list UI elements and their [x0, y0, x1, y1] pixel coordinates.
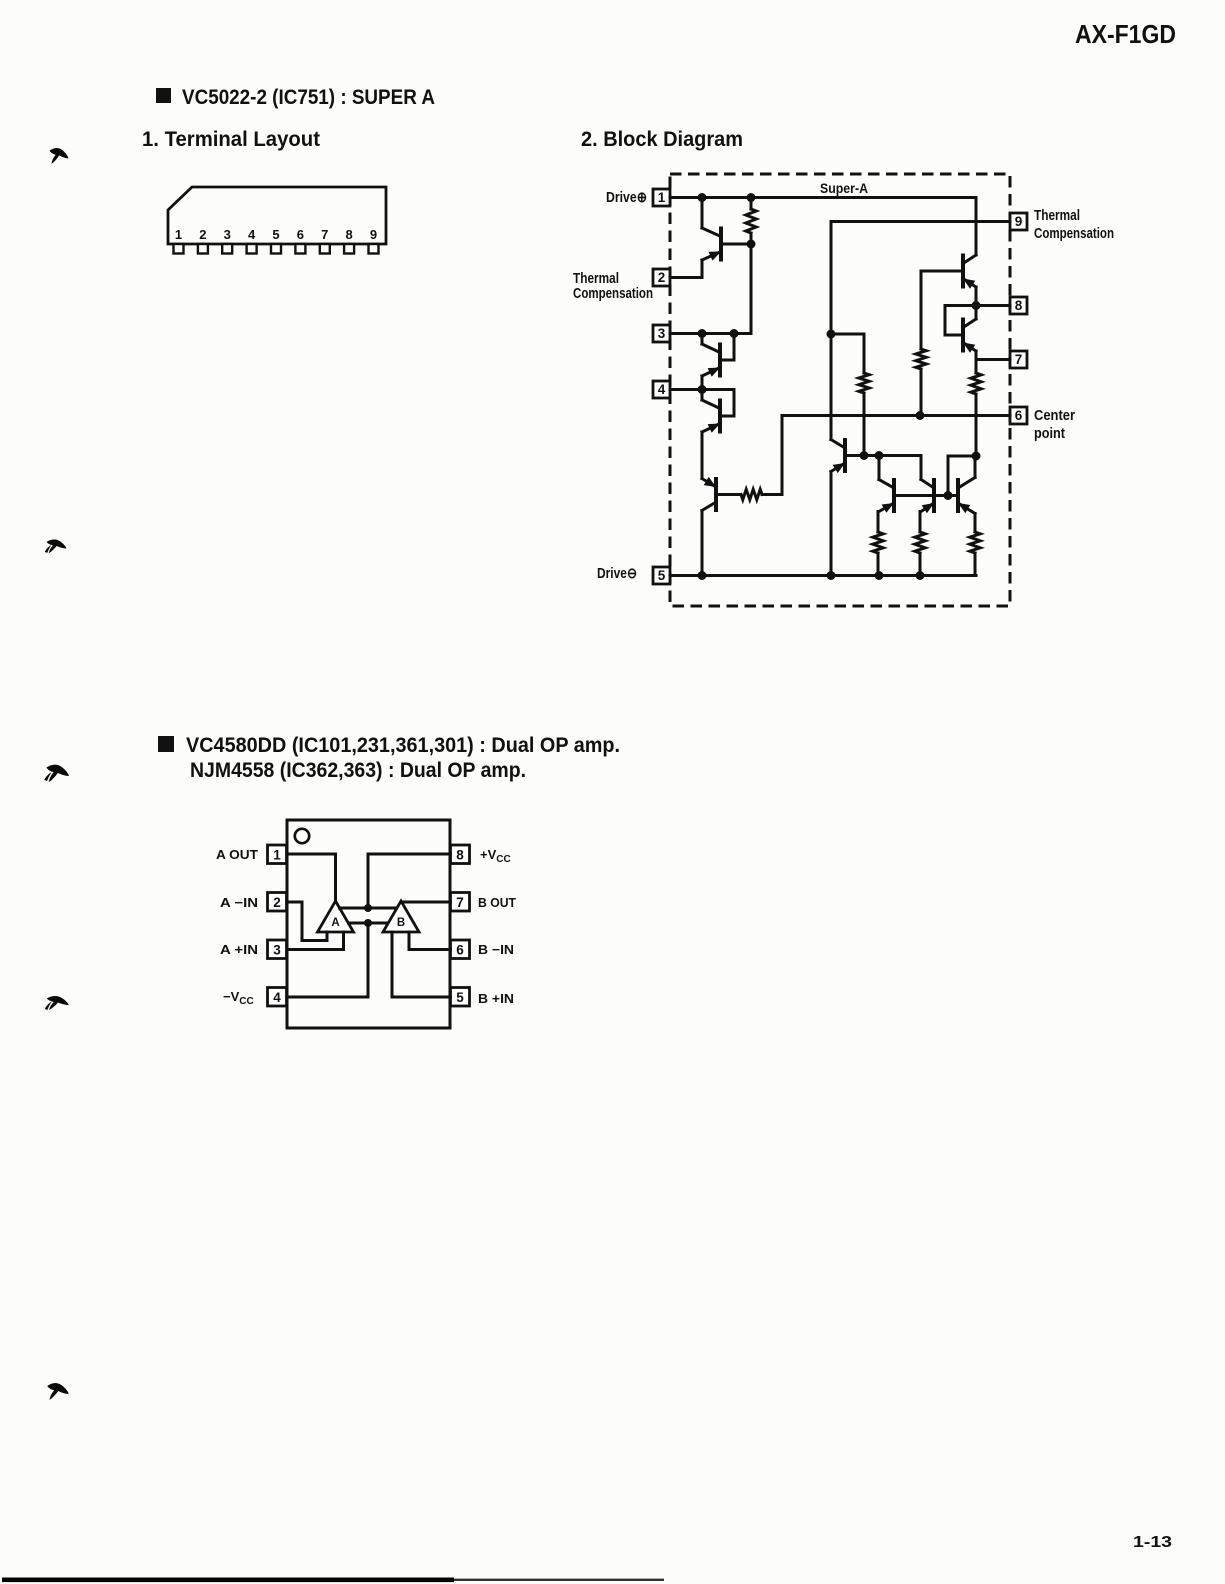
svg-text:2: 2 [273, 895, 281, 910]
wire Q1 emitter to pin 2 [670, 260, 702, 278]
svg-text:Thermal: Thermal [1034, 208, 1080, 224]
transistor Q7 [921, 480, 934, 514]
wire pin5 to B non-inverting input [392, 932, 451, 997]
svg-text:3: 3 [658, 326, 666, 341]
wire pin 4 rail [670, 390, 734, 417]
svg-text:A +IN: A +IN [220, 942, 258, 957]
svg-text:6: 6 [1015, 408, 1023, 423]
wire Drive+ rail (pin1) [670, 198, 976, 256]
wire Q1 collector [701, 198, 704, 229]
node pin3-Q2 collector [698, 329, 707, 338]
svg-text:6: 6 [297, 227, 304, 242]
node rail-R5 [860, 451, 869, 460]
heading VC5022-2 (IC751) : SUPER A [156, 86, 435, 109]
resistor R4 [971, 373, 981, 394]
pin 9 terminal [369, 227, 379, 254]
svg-text:1: 1 [273, 848, 281, 863]
node pin3-Q2 base [730, 329, 739, 338]
pin 4 terminal [247, 227, 257, 254]
svg-text:NJM4558 (IC362,363) : Dual OP: NJM4558 (IC362,363) : Dual OP amp. [190, 759, 526, 782]
wire common base rail Q6-Q7-Q8 [894, 494, 958, 497]
transistor Q1 [702, 228, 721, 261]
node pin5-Q5 [827, 571, 836, 580]
wire Q5 emitter to pin5 [830, 472, 833, 576]
node pin1-R1 [747, 193, 756, 202]
resistor R2 [741, 489, 762, 499]
svg-text:Drive⊕: Drive⊕ [606, 190, 647, 206]
wire Q3 collector [701, 390, 704, 401]
svg-text:2: 2 [199, 227, 206, 242]
wire Q1 base [721, 243, 751, 246]
svg-text:Compensation: Compensation [573, 286, 653, 302]
svg-text:9: 9 [1015, 214, 1023, 229]
pin 5 (B +IN) [451, 988, 470, 1007]
transistor Q9 [963, 255, 976, 289]
svg-text:5: 5 [456, 990, 464, 1005]
node -Vcc junction [364, 919, 372, 927]
label Thermal Compensation (pin 2) [573, 271, 653, 302]
wire R8 to pin5 [974, 553, 977, 576]
pin 8 terminal [344, 227, 354, 254]
wire pin2 to A inverting input [287, 902, 327, 941]
node R1-Q1 base [747, 240, 756, 249]
pin 1 [653, 189, 670, 206]
wire R6 to pin5 [877, 553, 880, 576]
svg-text:5: 5 [272, 227, 279, 242]
svg-text:1: 1 [175, 227, 182, 242]
wire Q10 emitter to pin 7 [975, 351, 978, 360]
wire Q5 base rail [845, 456, 921, 480]
svg-text:AX-F1GD: AX-F1GD [1075, 19, 1176, 49]
wire Thermal Compensation rail (pin9) [831, 222, 1010, 440]
svg-text:B: B [397, 917, 405, 929]
svg-text:7: 7 [1015, 352, 1023, 367]
wire Q4 collector to pin5 [701, 511, 704, 576]
wire Drive- rail (pin5) [670, 574, 976, 577]
transistor Q8 [958, 478, 975, 514]
wire Q8 collector [974, 456, 977, 478]
wire V+ rail A-B [340, 907, 397, 910]
svg-text:1-13: 1-13 [1133, 1534, 1172, 1551]
svg-text:point: point [1034, 426, 1065, 442]
svg-text:1. Terminal Layout: 1. Terminal Layout [142, 128, 320, 151]
pin 2 terminal [198, 227, 208, 254]
wire R7 to pin5 [919, 553, 922, 576]
node pin1-Q1 [698, 193, 707, 202]
svg-text:A OUT: A OUT [216, 847, 258, 862]
wire Q10 base loop [945, 306, 976, 336]
node rail-Q6 [875, 451, 884, 460]
wire Q7 emitter [919, 512, 922, 533]
wire pin7 to R4 [975, 360, 978, 374]
wire Q2 emitter [701, 376, 704, 390]
wire pin8 +Vcc drop [368, 854, 451, 908]
svg-text:B +IN: B +IN [478, 991, 514, 1006]
heading VC4580DD Dual OP amp [158, 734, 620, 782]
wire pin 7 lead [976, 358, 1010, 361]
wire V- rail A-B [349, 922, 388, 925]
svg-text:Super-A: Super-A [820, 180, 868, 196]
op-amp B [383, 901, 419, 932]
svg-text:Compensation: Compensation [1034, 226, 1114, 242]
label Thermal Compensation (pin 9) [1034, 208, 1114, 242]
resistor R6 [873, 532, 883, 553]
svg-text:6: 6 [456, 943, 464, 958]
pin 3 [653, 325, 670, 342]
wire Q3 emitter to Q4 [701, 432, 704, 479]
resistor R7 [915, 532, 925, 553]
IC package outline (DIP-8) [287, 820, 450, 1028]
resistor R8 [970, 532, 980, 553]
svg-text:2: 2 [658, 270, 666, 285]
svg-text:3: 3 [273, 943, 281, 958]
wire pin9 branch to R5 [831, 334, 864, 373]
node pin5-Q4 [698, 571, 707, 580]
svg-text:VC4580DD (IC101,231,361,301) :: VC4580DD (IC101,231,361,301) : Dual OP a… [186, 734, 620, 757]
wire Q2 collector [701, 334, 704, 345]
wire Q10 collector [975, 306, 978, 320]
svg-text:A −IN: A −IN [220, 895, 258, 910]
wire R5 to Q5 base rail [863, 393, 866, 456]
pin 1 index mark [295, 829, 309, 843]
pin 6 (B -IN) [451, 940, 470, 959]
pin 4 (-Vcc) [268, 988, 287, 1007]
pin 5 [653, 567, 670, 584]
wire pin6 to B inverting input [409, 932, 451, 950]
pin 6 terminal [295, 227, 305, 254]
node base rail junction [944, 491, 953, 500]
node +Vcc junction [364, 904, 372, 912]
wire R3 to Center point [920, 369, 923, 416]
wire base rail riser [948, 456, 976, 496]
wire Q8 emitter [974, 514, 977, 533]
transistor Q3 [702, 400, 720, 433]
svg-text:Center: Center [1034, 408, 1075, 424]
resistor R5 [859, 373, 869, 393]
transistor Q6 [879, 480, 894, 513]
wire Q9 emitter [975, 287, 978, 306]
svg-text:8: 8 [345, 227, 352, 242]
wire Center point rail (pin6) [782, 414, 1010, 417]
pin 1 (A OUT) [268, 845, 287, 864]
pin 6 [1010, 407, 1027, 424]
wire pin7 to B output [401, 901, 451, 904]
pin 2 [653, 269, 670, 286]
svg-text:4: 4 [658, 382, 666, 397]
node Q8 collector net [972, 452, 981, 461]
wire R4 to Q8 collector net [975, 394, 978, 456]
Super-A IC boundary [670, 174, 1010, 606]
transistor Q2 [702, 344, 720, 377]
svg-text:5: 5 [658, 568, 666, 583]
svg-text:B −IN: B −IN [478, 942, 514, 957]
wire -Vcc drop to pin4 [287, 923, 368, 997]
transistor Q4 [702, 477, 716, 511]
svg-text:A: A [331, 917, 339, 929]
pin 8 (+Vcc) [451, 845, 470, 864]
svg-text:8: 8 [1015, 298, 1023, 313]
svg-text:VC5022-2 (IC751) : SUPER A: VC5022-2 (IC751) : SUPER A [182, 86, 435, 109]
svg-text:8: 8 [456, 848, 464, 863]
pin 9 [1010, 213, 1027, 230]
svg-text:4: 4 [248, 227, 256, 242]
svg-text:7: 7 [456, 895, 464, 910]
node pin5-R7 [916, 571, 925, 580]
transistor Q10 [963, 319, 976, 353]
wire pin1 to A output [287, 854, 336, 901]
pin 5 terminal [271, 227, 281, 254]
wire pin3 to A non-inverting input [287, 932, 344, 950]
label Center point (pin 6) [1034, 408, 1075, 442]
svg-text:2. Block Diagram: 2. Block Diagram [581, 128, 743, 151]
wire pin 8 lead [976, 304, 1010, 307]
IC751 package outline [168, 187, 386, 244]
wire Q3 base loop [720, 415, 734, 418]
wire Q6 collector [878, 456, 881, 480]
svg-text:Drive⊖: Drive⊖ [597, 566, 637, 582]
wire Q9 base drop to R3 [920, 271, 923, 349]
pin 7 terminal [320, 227, 330, 254]
node pin4-Q3 [698, 385, 707, 394]
svg-text:B OUT: B OUT [478, 895, 516, 910]
svg-text:9: 9 [370, 227, 377, 242]
pin 7 [1010, 351, 1027, 368]
node pin8 junction [972, 301, 981, 310]
pin 3 (A +IN) [268, 940, 287, 959]
pin 4 [653, 381, 670, 398]
svg-text:4: 4 [273, 990, 281, 1005]
resistor R1 [746, 198, 756, 245]
wire Q9 base [921, 270, 963, 273]
wire Q2 base loop [720, 334, 734, 361]
svg-text:Thermal: Thermal [573, 271, 619, 287]
pin 2 (A -IN) [268, 893, 287, 912]
svg-text:7: 7 [321, 227, 328, 242]
node pin5-R6 [875, 571, 884, 580]
wire Q6 emitter [877, 512, 880, 533]
pin 8 [1010, 297, 1027, 314]
wire R1 to pin3 rail [670, 244, 751, 334]
svg-text:3: 3 [224, 227, 231, 242]
wire R2 to Center point net [762, 416, 782, 495]
svg-text:1: 1 [658, 190, 666, 205]
wire Q4 base [716, 493, 741, 496]
node pin6-R3 [916, 411, 925, 420]
node pin9 branch [827, 330, 836, 339]
transistor Q5 [831, 440, 845, 474]
pin 3 terminal [222, 227, 232, 254]
resistor R3 [916, 349, 926, 369]
pin 1 terminal [174, 227, 184, 254]
pin 7 (B OUT) [451, 893, 470, 912]
op-amp A [318, 901, 354, 932]
